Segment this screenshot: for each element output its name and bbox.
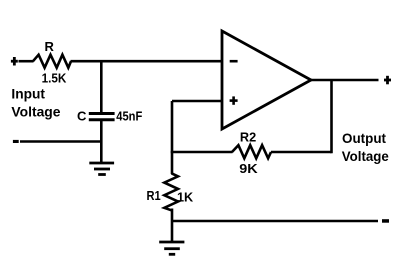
wire node B to R2 — [171, 151, 233, 154]
svg-text:R1: R1 — [147, 188, 161, 203]
non-inverting input pin label + — [230, 96, 238, 104]
ground (input side) — [89, 163, 114, 175]
svg-text:Input: Input — [11, 86, 45, 102]
svg-text:R2: R2 — [240, 129, 256, 144]
input terminal + (Vin plus) — [11, 57, 18, 66]
wire feedback vertical to output node — [330, 80, 333, 153]
output terminal - (Vout minus) — [382, 219, 389, 223]
svg-text:Voltage: Voltage — [342, 148, 389, 164]
input terminal - (Vin minus) — [13, 140, 19, 143]
svg-text:1K: 1K — [177, 190, 194, 205]
resistor R1 — [164, 173, 178, 210]
svg-text:C: C — [77, 109, 87, 124]
wire R1 to bottom rail / ground — [171, 209, 174, 243]
wire node B down to R1 — [171, 152, 174, 174]
wire bottom rail to Vout- — [172, 220, 378, 223]
wire Vin+ to resistor R — [19, 60, 34, 63]
svg-text:R: R — [45, 39, 55, 54]
resistor R — [33, 55, 71, 68]
svg-text:45nF: 45nF — [116, 109, 142, 124]
wire Vin- to capacitor bottom node — [20, 140, 101, 143]
wire node A down to capacitor C — [100, 60, 103, 113]
inverting input pin label - — [230, 60, 238, 63]
wire R to op-amp inverting input (node A) — [71, 60, 223, 63]
wire C bottom to ground node — [100, 121, 103, 163]
op-amp U1 — [222, 31, 311, 129]
wire node B vertical — [171, 101, 174, 152]
output terminal + (Vout plus) — [384, 76, 391, 85]
svg-text:1.5K: 1.5K — [42, 71, 67, 86]
resistor R2 — [232, 145, 271, 158]
svg-text:Output: Output — [342, 130, 386, 146]
wire R2 to feedback corner — [271, 151, 332, 154]
capacitor C — [89, 114, 115, 120]
svg-text:Voltage: Voltage — [11, 104, 60, 120]
wire non-inverting input to node B (horizontal) — [172, 100, 222, 103]
wire op-amp output to Vout+ — [310, 79, 379, 82]
svg-text:9K: 9K — [239, 161, 258, 176]
ground (under R1) — [159, 242, 184, 254]
